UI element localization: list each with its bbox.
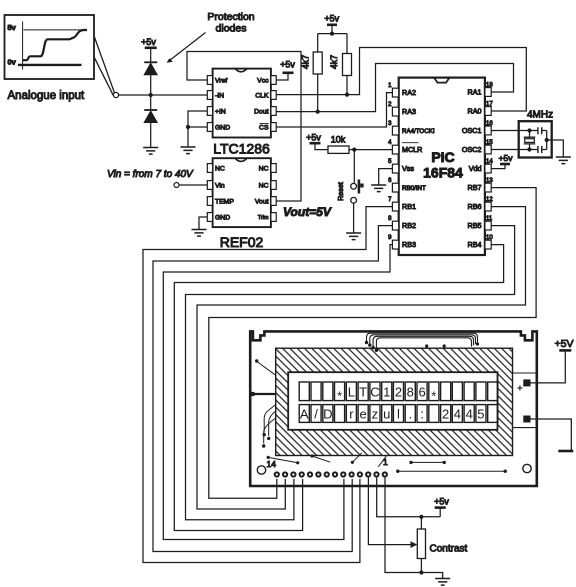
U1 pin labels: [215, 78, 269, 132]
svg-text:RA2: RA2: [402, 88, 416, 97]
wire: LCD pad1 to ground rail: [385, 478, 443, 578]
svg-text:NC: NC: [259, 183, 269, 190]
U3 pin 8 RB2: [392, 221, 398, 230]
U1 pin +IN: [207, 107, 212, 116]
svg-text:Trim: Trim: [258, 215, 269, 221]
diode D1 (clamp to +5v): [144, 61, 157, 63]
svg-text:14: 14: [267, 459, 277, 469]
svg-text:Vss: Vss: [402, 164, 414, 173]
svg-text:/: /: [314, 407, 318, 422]
svg-text::: :: [420, 407, 424, 422]
wire: RB6 to LCD pad13: [197, 207, 526, 509]
U1 pin -IN: [207, 91, 212, 100]
svg-text:RB3: RB3: [402, 240, 416, 249]
svg-text:OSC1: OSC1: [462, 126, 482, 135]
svg-text:C: C: [370, 385, 379, 400]
junction: pot top: [419, 515, 423, 519]
wire: +IN / GND to ground: [188, 111, 207, 147]
LCD backlight terminal -: [523, 416, 530, 423]
wire: pot bottom to ground: [420, 559, 422, 573]
svg-text:18: 18: [486, 83, 493, 89]
junction: reset tap: [352, 148, 356, 152]
voltage reference U2 REF02 body: [213, 158, 271, 227]
potentiometer R4 Contrast: [420, 517, 422, 529]
wire: OSC2 into box: [491, 149, 538, 151]
U1 pin CLK: [271, 91, 276, 100]
svg-text:RB4: RB4: [468, 240, 482, 249]
svg-text:e: e: [359, 407, 366, 422]
U3 pin 10 RB4: [485, 240, 491, 249]
svg-text:4k7: 4k7: [301, 55, 311, 69]
svg-text:RA0: RA0: [468, 107, 482, 116]
wire: CLK to RA0 (up and over): [276, 48, 526, 112]
LCD mounting hole right: [523, 464, 531, 472]
svg-text:Vin: Vin: [215, 183, 225, 190]
svg-text:3: 3: [388, 121, 392, 127]
wire: U2 GND to ground: [199, 217, 207, 229]
svg-text:+5v: +5v: [141, 37, 156, 47]
svg-text:+5v: +5v: [306, 133, 321, 143]
svg-text:6: 6: [388, 178, 392, 184]
U3 pin 1 RA2: [392, 88, 398, 97]
svg-text:OSC2: OSC2: [462, 145, 482, 154]
svg-text:CS: CS: [259, 125, 269, 132]
svg-text:REF02: REF02: [220, 234, 264, 250]
svg-text:+IN: +IN: [215, 109, 226, 116]
LCD character cells row 1: [299, 382, 498, 401]
svg-text:PIC: PIC: [431, 149, 454, 165]
svg-text:15: 15: [486, 140, 493, 146]
svg-text:NC: NC: [259, 166, 269, 173]
svg-text:CLK: CLK: [255, 93, 269, 100]
wire: RB1 to LCD pad4: [143, 207, 392, 563]
U3 pin 4 MCLR: [392, 145, 398, 154]
wire: crystal box to ground: [547, 140, 564, 157]
U3 pin labels: [402, 88, 482, 250]
U3 pin 13 RB7: [485, 183, 491, 192]
U1 pin CS: [271, 123, 276, 132]
svg-text:T: T: [359, 385, 367, 400]
U3 pin 11 RB5: [485, 221, 491, 230]
wire: RB5 to LCD pad12: [186, 226, 515, 520]
ground at contrast: [435, 579, 450, 586]
svg-text:+5v: +5v: [324, 14, 339, 24]
wire: Vcc to +5v: [276, 73, 288, 80]
U3 pin 7 RB1: [392, 202, 398, 211]
op-amp/ADC U1 LTC1286 body: [213, 69, 271, 138]
backlight wire bundle on LCD top: [365, 333, 479, 352]
svg-text:LTC1286: LTC1286: [213, 141, 270, 157]
U3 pin 6 RB0/INT: [392, 183, 398, 192]
wire: backlight - to rail stub: [531, 419, 572, 451]
U2 pin Vout: [271, 197, 276, 206]
svg-text:16F84: 16F84: [423, 165, 463, 181]
svg-text:1: 1: [388, 83, 392, 89]
svg-text:4: 4: [388, 140, 392, 146]
svg-text:Vout: Vout: [255, 199, 269, 206]
svg-text:2: 2: [388, 102, 392, 108]
svg-text:RB5: RB5: [468, 221, 482, 230]
U3 pin 15 OSC2: [485, 145, 491, 154]
U1 pin Vref: [207, 76, 212, 85]
U1 pin Dout: [271, 107, 276, 116]
svg-text:u: u: [383, 407, 390, 422]
junctions at crystal: [527, 128, 531, 132]
U3 pin 9 RB3: [392, 240, 398, 249]
svg-text:13: 13: [486, 178, 493, 184]
LCD mounting hole left: [257, 466, 265, 474]
svg-text:4k7: 4k7: [329, 55, 339, 69]
svg-text:+: +: [517, 384, 523, 395]
svg-text:r: r: [349, 407, 354, 422]
svg-text:diodes: diodes: [216, 23, 247, 35]
svg-text:Vout=5V: Vout=5V: [283, 205, 332, 219]
wire: D2 to ground: [150, 123, 152, 148]
U3 pin 17 RA0: [485, 107, 491, 116]
junction: +5v split: [330, 31, 334, 35]
svg-text:GND: GND: [215, 125, 230, 132]
svg-text:Contrast: Contrast: [430, 544, 468, 555]
svg-text:+5v: +5v: [280, 60, 295, 70]
U2 pin Trim: [271, 213, 276, 222]
svg-text:L: L: [348, 385, 355, 400]
svg-text:RB7: RB7: [468, 183, 482, 192]
svg-text:RA4/TOCKI: RA4/TOCKI: [402, 128, 435, 135]
wire: RB7 to LCD pad14: [209, 188, 536, 499]
svg-text:TEMP: TEMP: [215, 199, 234, 206]
resistor R3 10k: [328, 146, 349, 153]
U3 pin 3 RA4/TOCKI: [392, 126, 398, 135]
LCD character cells row 2: [299, 405, 498, 423]
callout pointer from scope box to input node: [94, 37, 114, 94]
wire: R1 bottom to Dout line: [317, 74, 319, 112]
svg-text:.: .: [408, 407, 412, 422]
U2 pin NC1: [207, 164, 212, 173]
scope box (analogue input waveform): [5, 15, 95, 79]
wire: 10k to MCLR: [349, 149, 392, 151]
input terminal (open circle): [113, 92, 118, 97]
ground at U2 GND: [192, 230, 207, 237]
pushbutton SW1 Reset: [351, 180, 364, 204]
U2 pin Vin: [207, 181, 212, 190]
svg-text:A: A: [300, 407, 309, 422]
U2 pin NC2: [271, 164, 276, 173]
svg-text:RB1: RB1: [402, 202, 416, 211]
svg-text:*: *: [337, 389, 342, 404]
svg-text:2: 2: [442, 407, 449, 422]
svg-text:-IN: -IN: [215, 93, 224, 100]
svg-text:9: 9: [388, 235, 392, 241]
svg-text:+5v: +5v: [499, 153, 514, 163]
LCD display window: [288, 372, 497, 430]
ground below D2: [143, 148, 158, 155]
PCB trace decorations bottom: [267, 453, 507, 473]
svg-text:2: 2: [395, 385, 402, 400]
U3 pin 12 RB6: [485, 202, 491, 211]
svg-text:14: 14: [486, 159, 493, 165]
resistor R2 4k7: [343, 54, 352, 76]
wire: Dout to RA1 (up and over): [276, 64, 513, 112]
junction: R2/CLK: [345, 93, 349, 97]
svg-text:RB0/INT: RB0/INT: [402, 185, 426, 192]
svg-text:NC: NC: [215, 166, 225, 173]
wire: OSC1 into box: [491, 130, 538, 132]
svg-text:8: 8: [407, 385, 414, 400]
wire: Vin terminal to U2: [179, 184, 207, 186]
ground at Vss: [371, 185, 386, 192]
svg-text:GND: GND: [215, 215, 230, 222]
junction: crystal ground tap: [545, 138, 549, 142]
svg-text:RA3: RA3: [402, 107, 416, 116]
svg-text:D: D: [323, 407, 332, 422]
capacitor C2: [538, 146, 542, 153]
ground at U1 +IN/GND: [181, 147, 196, 154]
svg-text:1: 1: [383, 385, 390, 400]
svg-text:*: *: [431, 389, 436, 404]
wire: CS to RA2: [276, 93, 392, 127]
U1 pin GND: [207, 123, 212, 132]
diode D2 (clamp to ground): [144, 109, 157, 111]
LCD module PCB outline: [250, 331, 537, 486]
svg-text:l: l: [397, 407, 400, 422]
wire: node to D2: [150, 95, 152, 110]
crystal X1: [524, 131, 536, 150]
svg-text:7: 7: [388, 197, 392, 203]
junction: R1/Dout: [316, 110, 320, 114]
wire: LCD pad3 to contrast wiper: [368, 478, 410, 545]
U3 pin 18 RA1: [485, 88, 491, 97]
svg-text:+5V: +5V: [555, 338, 574, 350]
wire: input node to -IN: [119, 94, 208, 96]
LCD bezel (hatched): [276, 348, 513, 455]
svg-text:Protection: Protection: [207, 11, 254, 23]
svg-text:Analogue input: Analogue input: [8, 90, 86, 102]
svg-text:RB6: RB6: [468, 202, 482, 211]
svg-text:5v: 5v: [8, 23, 17, 32]
wire: D1 to node: [150, 75, 152, 95]
U3 pin 5 Vss: [392, 164, 398, 173]
svg-text:RA1: RA1: [468, 88, 482, 97]
wire: RB2 to LCD pad5: [153, 226, 392, 552]
svg-text:0v: 0v: [8, 58, 17, 67]
svg-text:Vcc: Vcc: [257, 78, 269, 85]
LCD pads 14..1: [274, 471, 388, 477]
svg-text:4: 4: [454, 407, 461, 422]
svg-text:17: 17: [486, 102, 493, 108]
svg-text:RB2: RB2: [402, 221, 416, 230]
wire: +5v to D1: [150, 48, 152, 63]
capacitor C1: [538, 127, 542, 134]
Vin input terminal: [174, 183, 179, 188]
junction: input node: [149, 93, 153, 97]
U3 pin 2 RA3: [392, 107, 398, 116]
svg-text:Dout: Dout: [254, 109, 268, 116]
svg-text:4MHz: 4MHz: [527, 110, 553, 121]
svg-text:Reset: Reset: [336, 182, 345, 201]
wire: RB4 to LCD pad11: [174, 245, 503, 531]
resistor R1 4k7: [313, 52, 322, 74]
svg-text:1: 1: [383, 457, 388, 467]
svg-text:11: 11: [486, 216, 493, 222]
wire: Vss to ground: [379, 169, 393, 185]
svg-text:10: 10: [486, 235, 493, 241]
U3 pin 16 OSC1: [485, 126, 491, 135]
svg-text:Vref: Vref: [215, 78, 227, 85]
wire: R2 bottom to CLK line: [346, 76, 348, 95]
svg-text:Vin = from 7 to 40V: Vin = from 7 to 40V: [107, 169, 194, 180]
ground at reset switch: [346, 233, 361, 240]
junction: pot bottom: [419, 570, 423, 574]
LCD glass side lines: [513, 373, 537, 428]
svg-text:12: 12: [486, 197, 493, 203]
svg-text:MCLR: MCLR: [402, 145, 422, 154]
wire: down to reset switch: [353, 150, 355, 183]
svg-text:8: 8: [388, 216, 392, 222]
U2 pin labels: [215, 166, 269, 222]
wire: +5V to backlight +: [531, 350, 566, 383]
U1 pin Vcc: [271, 76, 276, 85]
U2 pin TEMP: [207, 197, 212, 206]
wire: LCD pad2 to +5v: [377, 478, 441, 517]
svg-text:4: 4: [466, 407, 473, 422]
U3 pin 14 Vdd: [485, 164, 491, 173]
U2 pin GND: [207, 213, 212, 222]
ground at crystal: [556, 157, 571, 164]
wire: caps to right rail: [542, 131, 547, 150]
wire: Vref up over to REF02 Vout: [187, 52, 301, 202]
svg-text:10k: 10k: [331, 135, 346, 145]
wire: RB3 to LCD pad6: [163, 245, 392, 540]
svg-text:5: 5: [477, 407, 484, 422]
wire: +5v rail to both 4k7: [318, 34, 347, 54]
svg-text:16: 16: [486, 121, 493, 127]
rail stub bar: [558, 450, 573, 453]
svg-text:6: 6: [418, 385, 425, 400]
microcontroller U3 PIC 16F84 body: [399, 78, 485, 255]
PCB trace decorations left: [250, 359, 275, 447]
junction: +IN/GND tie: [186, 125, 190, 129]
svg-text:z: z: [372, 407, 379, 422]
LCD backlight terminal +: [523, 379, 530, 386]
svg-text:+5v: +5v: [434, 497, 449, 507]
wire: Vdd to +5v: [491, 164, 505, 169]
U2 pin NC3: [271, 181, 276, 190]
wire: reset switch to ground: [353, 203, 355, 232]
svg-text:5: 5: [388, 159, 392, 165]
svg-text:Vdd: Vdd: [469, 164, 482, 173]
